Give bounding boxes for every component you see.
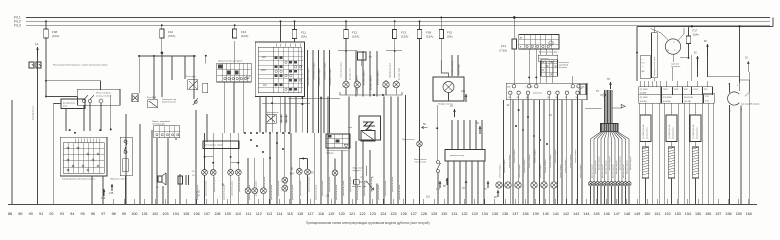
svg-text:задний ход пров: задний ход пров <box>389 63 392 78</box>
lamp tail <box>496 182 502 188</box>
svg-text:указатель povor: указатель povor <box>213 176 216 192</box>
box G1 supply box <box>640 56 651 79</box>
svg-text:указатель povor: указатель povor <box>321 180 324 196</box>
svg-text:лампа габарит: лампа габарит <box>555 149 557 163</box>
svg-text:(L3-8B): (L3-8B) <box>640 93 647 95</box>
wire <box>448 161 484 204</box>
svg-text:освещ. панели: освещ. панели <box>96 96 112 98</box>
relay K2 lighting relay box <box>77 89 120 105</box>
svg-text:фонарь задний: фонарь задний <box>618 157 621 170</box>
wire <box>345 39 347 82</box>
svg-text:передняя: передняя <box>353 170 361 172</box>
svg-text:87: 87 <box>361 177 363 179</box>
relay K9 headlamp relay <box>352 166 374 190</box>
lamp HL6 <box>252 188 258 194</box>
svg-text:ей фары: ей фары <box>326 152 334 155</box>
wire <box>748 72 750 204</box>
svg-text:фонарь задний: фонарь задний <box>601 165 604 178</box>
svg-text:(5A): (5A) <box>447 35 453 39</box>
svg-text:157: 157 <box>715 212 721 216</box>
node 68 <box>704 40 709 57</box>
svg-text:120: 120 <box>339 212 345 216</box>
lamp HL7 <box>261 188 267 194</box>
node 132/147 <box>196 191 201 198</box>
svg-text:127: 127 <box>411 212 417 216</box>
svg-text:140: 140 <box>543 212 549 216</box>
svg-text:указатель povor: указатель povor <box>398 184 401 200</box>
wire lamp bus <box>340 92 402 96</box>
wire <box>452 120 482 150</box>
box 48b <box>580 84 586 95</box>
svg-text:лампа габарит: лампа габарит <box>575 149 577 163</box>
svg-text:91: 91 <box>39 212 43 216</box>
connector X2 block <box>600 123 618 131</box>
wire <box>224 82 226 133</box>
wire <box>640 81 707 87</box>
svg-text:117: 117 <box>308 212 314 216</box>
svg-text:98: 98 <box>112 212 116 216</box>
lamp HL11 <box>282 185 288 191</box>
svg-text:лампа габарит: лампа габарит <box>535 149 537 163</box>
svg-text:118: 118 <box>318 212 324 216</box>
motor M1 wiper table <box>326 134 350 155</box>
svg-text:126: 126 <box>401 212 407 216</box>
svg-text:ACC: ACC <box>261 69 266 72</box>
node 58 <box>422 123 428 129</box>
wire <box>242 82 244 133</box>
svg-text:лампа габарит: лампа габарит <box>545 159 547 173</box>
connector X3 ABS socket <box>728 80 760 204</box>
wire <box>452 55 458 76</box>
net F/L3 bus wire <box>26 24 770 26</box>
svg-text:лампа габарит: лампа габарит <box>509 154 511 168</box>
svg-text:135: 135 <box>109 191 114 195</box>
svg-text:(15A): (15A) <box>401 35 408 39</box>
relay K7 horn relay <box>348 116 381 140</box>
splice lamps <box>588 182 631 204</box>
svg-text:124: 124 <box>380 212 386 216</box>
wire labels colA <box>308 62 332 86</box>
wire lamp links <box>205 157 308 163</box>
wire <box>636 27 638 82</box>
node 85 <box>476 122 481 134</box>
svg-text:фонарь задний: фонарь задний <box>594 161 597 174</box>
svg-text:аварийной: аварийной <box>559 64 568 67</box>
flag <box>612 105 625 109</box>
fuse F11 <box>292 20 306 38</box>
node 38 <box>222 184 225 187</box>
lamp tail <box>551 182 557 188</box>
wire <box>161 38 163 56</box>
svg-text:лампа габарит: лампа габарит <box>504 159 506 173</box>
svg-text:152: 152 <box>665 212 671 216</box>
connector labels row1 <box>639 87 713 95</box>
wire ground lead <box>12 100 35 204</box>
svg-text:5/74: 5/74 <box>705 96 709 98</box>
svg-text:154: 154 <box>685 212 691 216</box>
lamp HL14 flasher lamp <box>402 95 422 204</box>
svg-text:129: 129 <box>431 212 437 216</box>
svg-text:Комбинированный переключатель: Комбинированный переключатель <box>62 177 95 180</box>
svg-text:лампа габарит: лампа габарит <box>580 164 582 178</box>
svg-text:F/L3: F/L3 <box>14 23 21 27</box>
svg-text:159: 159 <box>736 212 742 216</box>
wire <box>91 176 93 204</box>
svg-text:указатель povor: указатель povor <box>231 180 234 196</box>
node 87 <box>484 181 489 191</box>
connector X1 terminal strip <box>506 83 587 100</box>
wire <box>280 20 282 42</box>
svg-text:провод массы: провод массы <box>647 127 649 139</box>
svg-text:7/74: 7/74 <box>704 89 708 91</box>
svg-text:фонарь задний: фонарь задний <box>625 161 628 174</box>
junction <box>204 139 305 164</box>
connector labels row2 <box>639 93 714 103</box>
svg-text:указатель povor: указатель povor <box>384 180 387 196</box>
node 45/144 <box>290 168 295 176</box>
svg-text:(7.5A): (7.5A) <box>499 48 507 52</box>
wire header <box>138 52 196 57</box>
relay K1 flasher unit <box>29 62 108 68</box>
svg-text:128: 128 <box>421 212 427 216</box>
svg-text:(5A): (5A) <box>301 35 307 39</box>
svg-text:лампа габарит: лампа габарит <box>570 154 572 168</box>
wire <box>419 39 421 96</box>
svg-text:стоп-сигнала: стоп-сигнала <box>414 162 427 164</box>
svg-text:155: 155 <box>695 212 701 216</box>
lamp HL10 <box>282 177 288 183</box>
caption <box>306 221 430 225</box>
svg-text:указатель povor: указатель povor <box>356 184 359 200</box>
svg-text:T1/74: T1/74 <box>663 89 668 91</box>
svg-text:(Т)-76/84 (3.9-4В): (Т)-76/84 (3.9-4В) <box>669 124 671 139</box>
wire fan <box>591 132 630 182</box>
lamp side marker <box>393 80 399 92</box>
svg-text:сигнализ.: сигнализ. <box>559 67 568 69</box>
svg-text:CL/74: CL/74 <box>693 89 698 91</box>
switch S3 <box>132 94 138 102</box>
net F/L1 bus wire <box>26 16 770 18</box>
svg-text:указатель: указатель <box>533 93 542 95</box>
svg-text:111: 111 <box>246 212 252 216</box>
horn H1 <box>152 130 166 204</box>
svg-text:(B2)-75/84: (B2)-75/84 <box>684 97 693 99</box>
svg-text:106: 106 <box>194 212 200 216</box>
svg-text:147: 147 <box>196 194 201 197</box>
wire labels colB <box>356 69 380 90</box>
svg-text:Правая контактная группа: Правая контактная группа <box>218 61 243 63</box>
wire <box>528 49 573 85</box>
capacitor C1 <box>163 171 195 204</box>
node T8 <box>607 78 612 89</box>
svg-text:лампа габарит: лампа габарит <box>540 164 542 178</box>
svg-text:107: 107 <box>204 212 210 216</box>
svg-text:121: 121 <box>349 212 355 216</box>
wire <box>46 81 101 90</box>
cable W1 <box>642 103 648 204</box>
wire F16 drop <box>234 41 236 63</box>
svg-text:клеммная колодка: клеммная колодка <box>319 68 321 86</box>
svg-text:131: 131 <box>451 212 457 216</box>
lamp HL12 <box>332 170 338 176</box>
svg-text:плафон освещ: плафон освещ <box>451 61 454 75</box>
svg-text:Реле ВДВ: Реле ВДВ <box>147 97 157 99</box>
fuse F12 <box>344 20 360 38</box>
svg-text:указатель povor: указатель povor <box>291 184 294 200</box>
svg-text:ON: ON <box>263 84 267 87</box>
wire <box>206 114 208 142</box>
svg-text:150: 150 <box>644 212 650 216</box>
wire <box>126 114 140 204</box>
meter P1 gauge box <box>445 150 485 162</box>
svg-text:149: 149 <box>634 212 640 216</box>
svg-text:Реле торм.: Реле торм. <box>186 76 197 78</box>
svg-text:99: 99 <box>122 212 126 216</box>
svg-text:115: 115 <box>287 212 293 216</box>
junction <box>205 55 207 64</box>
svg-text:147: 147 <box>614 212 620 216</box>
node 55 <box>443 178 448 188</box>
cable W3 <box>692 103 698 204</box>
wire <box>673 55 692 81</box>
ticks <box>103 199 748 204</box>
svg-text:8/74: 8/74 <box>684 89 688 91</box>
node 135 <box>109 184 114 195</box>
svg-text:указатель povor: указатель povor <box>335 184 338 200</box>
svg-text:119: 119 <box>328 212 334 216</box>
svg-text:95: 95 <box>81 212 85 216</box>
svg-text:- - -: - - - <box>641 66 644 68</box>
lamp side marker <box>354 80 360 92</box>
svg-text:30: 30 <box>372 177 374 179</box>
svg-text:указатель povor: указатель povor <box>363 180 366 196</box>
svg-text:Прерыватель: Прерыватель <box>266 112 278 114</box>
svg-text:(3.4-3B): (3.4-3B) <box>684 101 691 103</box>
svg-text:110: 110 <box>235 212 241 216</box>
net F/L2 bus wire <box>26 20 770 22</box>
node F/L2 label <box>14 20 21 24</box>
hazard switch table <box>152 120 180 138</box>
svg-text:указатель газа: указатель газа <box>450 155 465 157</box>
svg-text:134: 134 <box>482 212 488 216</box>
svg-text:лампа габарит: лампа габарит <box>524 159 526 173</box>
wire field center <box>504 100 583 204</box>
svg-text:(Т)-76/84 (3.9-4В): (Т)-76/84 (3.9-4В) <box>693 124 695 139</box>
node 29 <box>311 171 314 174</box>
svg-text:153: 153 <box>675 212 681 216</box>
svg-text:132: 132 <box>461 212 467 216</box>
wire <box>519 95 578 205</box>
lamp HL13 dome lamp box <box>433 39 464 106</box>
wire <box>585 109 602 126</box>
wire <box>102 176 104 204</box>
svg-text:130: 130 <box>441 212 447 216</box>
svg-text:113: 113 <box>266 212 272 216</box>
wire labels colF13 <box>389 63 401 80</box>
lamp side marker <box>383 80 389 92</box>
lamp HL9 <box>305 169 311 175</box>
lamp HL2 <box>210 170 216 176</box>
svg-text:клеммная колодка: клеммная колодка <box>330 68 332 86</box>
svg-text:указатель povor: указатель povor <box>238 176 241 192</box>
svg-text:136: 136 <box>502 212 508 216</box>
svg-text:указатель povor: указатель povor <box>223 184 226 200</box>
svg-text:138: 138 <box>522 212 528 216</box>
svg-text:фонарь задний: фонарь задний <box>590 165 593 178</box>
switch S10 rotary <box>651 28 685 68</box>
wire hlink <box>262 97 340 105</box>
svg-text:123: 123 <box>370 212 376 216</box>
svg-text:фонарь задний: фонарь задний <box>622 165 625 178</box>
node 123 <box>461 90 467 102</box>
svg-text:92: 92 <box>49 212 53 216</box>
relay K5 flasher <box>203 141 239 149</box>
svg-text:132: 132 <box>196 191 201 194</box>
wire labels colF12 <box>341 62 352 80</box>
svg-text:провод массы: провод массы <box>673 127 675 139</box>
svg-text:указатель povor: указатель povor <box>277 180 280 196</box>
svg-text:105: 105 <box>183 212 189 216</box>
junction dots above table <box>69 128 112 133</box>
wire bundle <box>605 90 613 123</box>
svg-text:указатель povor: указатель povor <box>377 184 380 200</box>
svg-text:стоп сигнал пров: стоп сигнал пров <box>341 62 343 78</box>
svg-text:101: 101 <box>142 212 148 216</box>
svg-text:117: 117 <box>436 188 440 191</box>
node 42 <box>507 95 511 205</box>
svg-text:123: 123 <box>461 90 466 93</box>
bus bottom baseline <box>8 203 757 205</box>
svg-text:фонарь задн: фонарь задн <box>398 68 401 80</box>
svg-text:96: 96 <box>91 212 95 216</box>
terminal numbers <box>8 212 752 216</box>
node 70 <box>450 105 456 117</box>
svg-text:Принципиальная схема электропр: Принципиальная схема электропроводки гру… <box>306 221 430 225</box>
svg-text:T2/74: T2/74 <box>674 89 679 91</box>
lamp tail <box>515 182 521 188</box>
relay K6 interrupter <box>266 112 287 123</box>
svg-text:сигнализации: сигнализации <box>152 124 165 126</box>
wire <box>640 103 714 204</box>
lamp tail <box>505 182 511 188</box>
wire <box>772 17 774 26</box>
relay K3 wiper relay <box>147 97 158 108</box>
lamp tail <box>541 182 547 188</box>
svg-text:клеммная колодка: клеммная колодка <box>325 62 327 80</box>
svg-text:112: 112 <box>256 212 262 216</box>
svg-text:фонарь задний: фонарь задний <box>597 157 600 170</box>
svg-text:4/74: 4/74 <box>705 101 709 103</box>
switch S7 stop-lamp switch <box>414 105 441 204</box>
node F/L1 label <box>14 16 21 20</box>
svg-text:указатель povor: указатель povor <box>205 180 208 196</box>
fuse F14 <box>499 16 517 83</box>
wire <box>157 138 176 204</box>
node 134 <box>101 189 106 200</box>
junction stairs <box>515 109 548 145</box>
wire top link <box>637 26 773 28</box>
svg-text:(15A): (15A) <box>168 34 175 38</box>
svg-text:15Ач: 15Ач <box>693 32 700 36</box>
wire labels <box>500 149 583 178</box>
node 78 <box>462 180 467 190</box>
svg-text:разгрузочное: разгрузочное <box>63 103 76 105</box>
svg-text:90: 90 <box>29 212 33 216</box>
cable W3 label box <box>690 115 701 142</box>
svg-text:93: 93 <box>60 212 64 216</box>
wire table drops <box>260 97 302 133</box>
svg-text:14: 14 <box>35 42 39 46</box>
fuse F15 <box>439 16 453 38</box>
node 43 <box>549 114 552 117</box>
svg-text:Переключ. света: Переключ. света <box>110 178 126 180</box>
switch S2 dimmer <box>110 137 132 180</box>
svg-text:103: 103 <box>162 212 168 216</box>
svg-text:Реле указателей поворота с тре: Реле указателей поворота с тремя контакт… <box>53 64 108 67</box>
fuse F13 <box>393 20 409 38</box>
svg-text:116: 116 <box>297 212 303 216</box>
svg-text:156: 156 <box>705 212 711 216</box>
switch S5 contact group table <box>217 61 252 82</box>
svg-text:лампа габарит: лампа габарит <box>565 159 567 173</box>
relay K4 brake relay <box>186 76 208 93</box>
wire <box>513 49 515 85</box>
lamp HL5 <box>245 188 251 194</box>
switch S9 small grid <box>541 60 569 76</box>
svg-text:133: 133 <box>472 212 478 216</box>
svg-text:(10A): (10A) <box>241 34 248 38</box>
svg-text:освещения: освещения <box>671 66 680 68</box>
node 14 terminal arrow <box>35 42 39 204</box>
wire <box>53 95 111 204</box>
svg-text:151: 151 <box>654 212 660 216</box>
svg-text:клеммная колодка: клеммная колодка <box>308 68 310 86</box>
svg-text:114: 114 <box>277 212 283 216</box>
wire <box>233 82 235 133</box>
svg-text:102: 102 <box>152 212 158 216</box>
wire <box>125 176 127 204</box>
svg-text:клеммная колодка: клеммная колодка <box>314 62 316 80</box>
svg-text:160: 160 <box>746 212 752 216</box>
svg-text:фонарь задний: фонарь задний <box>611 165 614 178</box>
svg-text:лампа габарит: лампа габарит <box>550 154 552 168</box>
box fuel pump <box>346 51 373 66</box>
cable W2 <box>668 103 674 204</box>
svg-text:7 2 1: 7 2 1 <box>641 63 645 65</box>
svg-text:144: 144 <box>583 212 589 216</box>
svg-text:фонарь задний: фонарь задний <box>608 157 611 170</box>
svg-text:109: 109 <box>225 212 231 216</box>
svg-text:144: 144 <box>290 173 295 176</box>
wire labels colC <box>451 61 461 75</box>
wire <box>46 97 77 106</box>
svg-text:лампа габарит: лампа габарит <box>519 164 521 178</box>
switch S4 ign sw <box>162 98 198 105</box>
fuse F16 <box>233 24 249 38</box>
svg-text:фонарь заднего: фонарь заднего <box>363 69 366 85</box>
svg-text:предохранитель цепи: предохранитель цепи <box>654 57 656 76</box>
svg-text:лампа задн: лампа задн <box>459 64 461 75</box>
fuse F10 <box>160 24 176 38</box>
svg-text:лампа габарит: лампа габарит <box>514 149 516 163</box>
fuse F17 <box>680 27 699 59</box>
svg-text:(L3.6-9B): (L3.6-9B) <box>663 101 671 103</box>
wire column group A <box>308 50 330 133</box>
svg-text:Прерыватель: Прерыватель <box>402 139 414 141</box>
node 117 <box>436 181 441 191</box>
wire labels <box>196 176 401 200</box>
relay K8 <box>353 131 376 172</box>
